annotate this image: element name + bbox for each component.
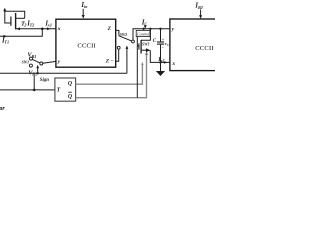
arrow I_T1 (pointing right)	[3, 35, 7, 38]
gate stub	[137, 45, 139, 47]
svg-text:C: C	[153, 39, 157, 44]
svg-text:Q: Q	[68, 94, 73, 100]
svg-text:CCCII: CCCII	[77, 43, 96, 50]
channel bar SW3	[140, 40, 142, 54]
svg-text:x2: x2	[160, 59, 165, 63]
svg-text:T2: T2	[30, 23, 35, 28]
capacitor C	[160, 29, 162, 42]
svg-text:in: in	[84, 4, 88, 9]
wire: SW3 drain up to I_C rail	[141, 29, 150, 40]
svg-text:Z: Z	[105, 59, 110, 65]
op-amp U2 CCCII block 2	[170, 19, 217, 71]
op-amp U1 CCCII block 1	[56, 19, 116, 67]
switch arm SW1	[32, 59, 40, 63]
svg-text:T: T	[57, 88, 61, 94]
pole circle SW1	[40, 62, 43, 65]
arrow I_x1 (pointing right on rail)	[47, 27, 51, 30]
svg-text:CCCII: CCCII	[195, 45, 214, 52]
svg-text:or: or	[0, 106, 5, 112]
node (dot on T wire)	[33, 89, 36, 92]
ground (arrow-style) below cap node	[160, 62, 162, 71]
node (dot: actuator on control rail)	[37, 72, 39, 74]
Sign block (toggle flip-flop)	[55, 78, 76, 101]
node dots on I_C rail	[142, 28, 144, 30]
svg-text:y: y	[171, 27, 175, 33]
wire: SW1 pole to U1 y terminal	[43, 61, 56, 63]
wire: Z stub of U1	[116, 30, 119, 35]
wire: SW2 pole riser up to I_C rail	[132, 29, 134, 40]
svg-text:x: x	[57, 26, 61, 32]
node dot at cap bottom on x-node wire	[159, 61, 161, 63]
wire: Q output (gray) right then up to SW3 area	[76, 64, 143, 85]
svg-text:Z: Z	[107, 26, 112, 32]
svg-text:Sign: Sign	[40, 78, 49, 83]
svg-text:SW1: SW1	[22, 60, 29, 64]
wire: I_in arrow into top of U1	[82, 9, 84, 16]
svg-text:Q: Q	[68, 81, 73, 87]
wire: SW3 source (arrow) then down and right to U2 x node	[141, 49, 148, 51]
arrow I_T2 (pointing left into source)	[16, 27, 20, 30]
svg-text:x1: x1	[47, 23, 52, 28]
svg-text:SW3: SW3	[142, 43, 149, 47]
wire: jog from x-rail down and left to image edge (I_T1 branch)	[0, 29, 42, 37]
svg-text:Control: Control	[137, 32, 150, 37]
node (junction dot on x-rail)	[41, 28, 44, 31]
svg-text:B2: B2	[197, 5, 203, 10]
contact circle V_B2	[29, 64, 32, 67]
wire: SW2 actuator riser	[126, 48, 128, 74]
wire: Z-minus stub up to lower contact	[116, 49, 119, 61]
transistor T2 (diode-connected, top-left)	[4, 10, 25, 30]
arrow up at T2 drain/gate node	[3, 8, 6, 12]
wire: control rail along bottom (from left edge to SW2 riser)	[0, 72, 127, 74]
svg-text:B1: B1	[31, 54, 37, 59]
Control block	[136, 30, 150, 36]
SW1 actuator arrow from control rail	[37, 67, 39, 73]
gate bar SW3	[138, 43, 140, 49]
wire: I_C rail from SW2 riser to CCCII U2 y terminal	[133, 28, 170, 30]
svg-text:x: x	[171, 61, 175, 67]
wire: Qbar output (gray) right then up to SW3 actuator arrow	[76, 54, 147, 97]
pole circle SW2	[132, 40, 135, 43]
wire: Control output down to gate / down to Qbar line	[136, 37, 138, 98]
contact circle V_B1	[30, 57, 33, 60]
arrow I_x2 on wire into U2 x	[164, 61, 168, 64]
wire: V_B2 tap down to T input wire	[33, 76, 35, 90]
svg-text:−: −	[110, 58, 113, 64]
wire: I_B2 arrow into top of U2	[200, 10, 202, 17]
switch arm SW2	[119, 36, 132, 41]
wire: main x-rail from T2 source to CCCII U1 x terminal	[15, 28, 56, 30]
contact circle (Z-minus)	[117, 46, 120, 49]
svg-text:T1: T1	[4, 40, 9, 45]
svg-text:y: y	[57, 59, 61, 65]
wire: I_C arrow down onto rail	[144, 25, 146, 26]
wire: T input from left edge into Sign block	[0, 89, 55, 91]
